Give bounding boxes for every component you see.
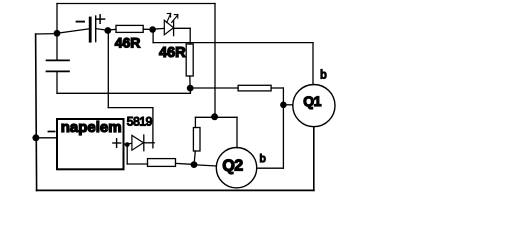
LED D1 cathode bar (173, 20, 175, 35)
svg-text:46R: 46R (159, 45, 186, 61)
wire dot2 to R1 (108, 28, 116, 31)
wire R5 top lead (194, 117, 196, 127)
battery plus label (97, 15, 105, 23)
wire cap to dot4 (57, 92, 190, 94)
svg-text:Q1: Q1 (303, 93, 321, 109)
wire dot4 to R3 (190, 87, 238, 89)
node dot2 battery-plus junction (104, 27, 111, 34)
wire to R4 (127, 163, 147, 165)
wire dot3 down (152, 30, 154, 43)
wire battery to dot2 (96, 29, 108, 31)
wire dot7 down (126, 145, 128, 164)
svg-text:b: b (320, 69, 326, 81)
wire LED cathode right (174, 27, 191, 29)
svg-text:b: b (260, 153, 266, 165)
wire R5 bottom lead (194, 151, 195, 164)
wire dot3 to LED (153, 27, 165, 30)
wire base rail y=42.6 (153, 42, 313, 44)
svg-text:46R: 46R (115, 35, 141, 51)
diode D2 5819 triangle (132, 135, 144, 150)
wire R1 to dot3 (143, 28, 152, 30)
transistor Q1 circle (293, 85, 335, 127)
wire R4 to dotB (176, 163, 195, 164)
node dot1 battery-minus junction (54, 30, 61, 37)
wire down to diode cathode (152, 108, 154, 148)
battery minus plate (89, 18, 92, 41)
node dot6 napelem minus (32, 134, 39, 141)
wire dotA left (195, 116, 214, 118)
wire drop to Q1 base (312, 43, 314, 85)
wire top-left drop (56, 4, 58, 34)
wire right to diode drop (108, 107, 153, 109)
wire diode cathode right (144, 142, 154, 144)
diode D2 cathode bar (143, 135, 145, 151)
wire to Q2 right (257, 167, 284, 169)
wire dot5 to Q1 (283, 104, 292, 106)
wire dot1 to battery (57, 29, 89, 34)
wire plus to diode (125, 142, 132, 145)
wire R2 bottom to dot4 (189, 76, 191, 88)
resistor R1 46R (116, 25, 143, 32)
transistor Q2 circle (216, 148, 256, 188)
wire dotB to Q2 (194, 165, 216, 166)
napelem minus label (48, 131, 54, 133)
battery minus label (77, 21, 84, 23)
resistor R3 (238, 85, 271, 91)
wire dot2 down (107, 31, 109, 108)
capacitor C1 bottom lead (56, 71, 58, 93)
wire dot5 down (282, 105, 284, 168)
wire dot1 to left rail (36, 33, 57, 35)
napelem box (57, 119, 124, 169)
wire R3 to corner (271, 87, 283, 89)
wire left rail vertical (36, 34, 37, 190)
wire bottom rail (37, 189, 314, 191)
capacitor C1 top plate (47, 59, 70, 61)
LED arrow 1 (167, 13, 171, 22)
wire down to R2 top (189, 28, 191, 44)
wire Q1 emitter drop (313, 127, 315, 191)
wire dotA right (215, 116, 237, 118)
resistor R5 vertical (193, 128, 200, 152)
node dotA (211, 113, 218, 120)
resistor R4 (148, 159, 176, 167)
LED D1 triangle (164, 20, 173, 35)
resistor R2 46R vertical (186, 44, 193, 76)
node dot7 napelem plus (125, 142, 130, 147)
svg-text:napelem: napelem (61, 119, 122, 136)
svg-text:5819: 5819 (127, 114, 153, 128)
capacitor C1 top lead (56, 33, 58, 60)
LED arrow 2 (172, 14, 178, 22)
battery plus plate (95, 16, 97, 42)
wire napelem minus (36, 137, 57, 139)
wire drop to Q2 top (236, 117, 238, 147)
wire right drop x=215 (214, 4, 216, 117)
capacitor C1 bottom plate (47, 70, 70, 72)
napelem plus label (113, 139, 121, 148)
node dotB (191, 161, 198, 168)
wire top rail (57, 3, 215, 5)
node dot3 LED anode junction (149, 26, 156, 33)
node dot5 (280, 102, 287, 109)
svg-text:Q2: Q2 (222, 158, 243, 175)
node dot4 (187, 85, 194, 92)
